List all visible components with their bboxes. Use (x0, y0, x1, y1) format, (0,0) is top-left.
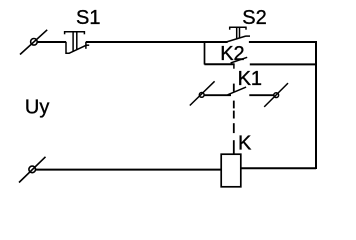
wire (36, 169, 222, 171)
terminal (K1 right) (264, 83, 288, 107)
pushbutton S2 (225, 27, 250, 43)
terminal X2 (bottom supply input) (19, 157, 46, 183)
wire (241, 167, 316, 169)
svg-text:Uy: Uy (25, 97, 49, 119)
wire (right side down) (315, 41, 317, 169)
terminal X1 (top supply input) (20, 30, 47, 55)
svg-text:S2: S2 (242, 7, 266, 29)
wire (branch down to K2) (204, 41, 206, 65)
terminal (K1 left) (190, 81, 215, 105)
relay coil K (221, 154, 241, 187)
contact K1 (output) (204, 87, 274, 95)
svg-text:K1: K1 (238, 68, 262, 90)
wire (86, 41, 228, 43)
contact K2 (latch) (204, 57, 316, 68)
pushbutton S1 (64, 31, 89, 53)
wire (37, 41, 66, 43)
svg-text:K2: K2 (220, 43, 244, 65)
svg-text:K: K (238, 132, 252, 154)
mechanical link (dashed) (233, 84, 235, 155)
svg-text:S1: S1 (76, 7, 100, 29)
wire (249, 41, 317, 43)
